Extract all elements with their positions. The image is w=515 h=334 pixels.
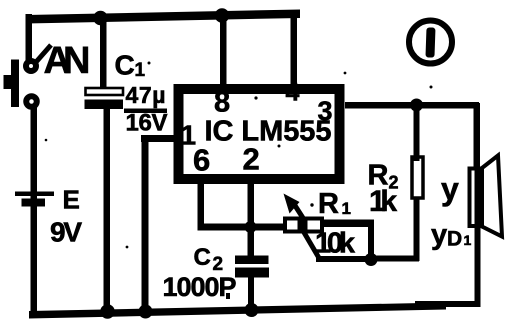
wire pin 8 [220,13,227,86]
wire speaker top vertical [474,103,481,168]
wire pin 6 vertical [198,179,205,230]
figure number circle 1 [409,21,452,64]
svg-text:9V: 9V [50,217,82,248]
wire R1 right terminal vertical [368,222,374,262]
switch S1 lever [37,45,52,62]
svg-text:IC LM555: IC LM555 [205,116,332,148]
wire bottom right horizontal [415,301,481,307]
svg-text:16V: 16V [126,110,168,137]
wire junction to R2 bottom horizontal [371,256,419,262]
capacitor C1 negative plate [85,100,124,110]
label yD1 [431,219,472,251]
node pin3 R2 junction [410,99,423,112]
wire C1 lower [104,109,111,314]
capacitor C2 top plate [235,256,269,265]
wire pin 2 vertical [248,179,255,257]
node pin2 junction [245,221,257,233]
switch S1 bottom contact [26,96,37,107]
svg-text:D: D [447,228,462,251]
wire pin 1 horizontal [141,135,176,142]
wire R2 bottom vertical [414,199,420,261]
node top rail C1 junction [93,11,108,26]
svg-text:E: E [63,185,80,215]
wire top rail V+ [26,10,300,24]
svg-text:6: 6 [193,143,210,178]
svg-text:y: y [441,171,459,207]
svg-text:8: 8 [214,87,230,119]
svg-text:10k: 10k [315,228,356,260]
wire R1 wiper diagonal [302,229,319,258]
battery E negative plate [22,199,46,207]
svg-text:1k: 1k [369,185,397,218]
node bottom rail pin1 junction [139,305,153,319]
wire pin 3 horizontal [345,102,479,109]
switch S1 push-button actuator bar [11,60,19,108]
svg-text:C: C [194,244,211,271]
wire pin 1 vertical to ground [142,136,149,314]
node bottom rail C2 junction [245,303,259,317]
svg-text:1000P: 1000P [163,272,237,302]
potentiometer R1 body [285,219,322,232]
speaker LS1 cone [482,156,502,237]
label fraction bar [124,109,167,114]
node bottom rail C1 junction [100,304,115,319]
label R1 [318,188,351,220]
switch S1 push-button knob [4,75,12,89]
wire R1 right terminal [322,220,374,228]
capacitor C2 bottom plate [235,268,269,278]
svg-text:R: R [318,188,339,220]
wire R1 wiper horizontal [316,256,374,262]
svg-text:AN: AN [44,40,91,82]
switch S1 top contact [26,61,36,71]
label C1 [115,50,146,82]
wire R2 top vertical [414,106,420,161]
svg-text:1: 1 [342,199,351,218]
battery E positive plate [15,192,54,197]
resistor R2 body [412,157,423,198]
wire C2 to ground [248,277,254,312]
node R1 R2 junction [365,253,378,266]
wire switch feed from top rail [26,14,33,62]
scan speckles [45,62,433,249]
potentiometer R1 wiper arrow [284,194,308,231]
label R2 [368,160,399,193]
svg-text:47µ: 47µ [126,82,166,108]
node top rail pin8 junction [215,8,230,23]
label 1000p descender stroke [226,293,230,299]
wire speaker bottom vertical [475,170,481,305]
svg-text:1: 1 [464,232,472,248]
svg-text:y: y [431,219,447,251]
wire C1 upper [100,16,107,89]
wire pin6-pin2-R1 horizontal [198,224,287,231]
svg-text:C: C [115,50,135,81]
wire pin 4 [291,10,298,86]
svg-text:1: 1 [135,60,146,81]
IC U1 LM555 body [179,89,340,179]
label C2 [194,244,224,275]
svg-text:4: 4 [286,79,300,107]
wire bottom rail ground [29,303,446,319]
wire battery branch [31,107,38,315]
speaker LS1 driver body [470,169,483,227]
capacitor C1 positive plate [86,88,124,95]
